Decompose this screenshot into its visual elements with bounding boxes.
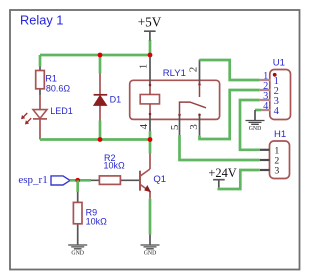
svg-text:3: 3 [188, 124, 200, 130]
R1 body [36, 71, 45, 89]
wire bottom bus LED1/D1/Q1 [40, 138, 150, 141]
RLY1 pin 4 lead [149, 114, 151, 131]
RLY1 coil connection lines [149, 85, 151, 114]
svg-text:3: 3 [274, 166, 279, 177]
power symbol +5V [138, 15, 162, 41]
U1 body box [270, 70, 291, 120]
svg-text:esp_r1: esp_r1 [18, 174, 47, 186]
D1 triangle [94, 96, 107, 106]
svg-text:10kΩ: 10kΩ [104, 160, 126, 170]
H1 pin 3 stub [260, 169, 270, 171]
D1 anode and cathode leads [99, 74, 101, 121]
RLY1 pin 4 terminal dot [149, 113, 152, 116]
svg-text:Relay 1: Relay 1 [20, 13, 63, 28]
LED LED1 [21, 95, 73, 139]
RLY1 pin 5 lead [179, 115, 181, 135]
svg-text:80.6Ω: 80.6Ω [46, 83, 71, 93]
wire Q1 emitter to ground [149, 199, 152, 235]
svg-text:R1: R1 [45, 74, 57, 84]
R1 pin leads [39, 67, 41, 96]
H1 pin 1 stub [260, 149, 270, 151]
svg-text:4: 4 [274, 106, 280, 117]
RLY1 pin 2 terminal dot [198, 83, 201, 86]
svg-text:D1: D1 [110, 94, 122, 104]
svg-text:1: 1 [138, 64, 150, 70]
wire junction to R9 [76, 180, 79, 192]
svg-text:U1: U1 [273, 58, 285, 69]
wire esp_r1 to R2 [70, 179, 91, 182]
GND bars [141, 245, 160, 249]
LED1 emission arrow shafts [23, 113, 31, 123]
GND stem [149, 235, 151, 245]
wire RLY1 pin5 to H1 pin2 [180, 135, 260, 160]
svg-text:10kΩ: 10kΩ [86, 216, 108, 226]
junction bus/+5V/RLY1 pin1 [148, 53, 153, 58]
net label esp_r1 [18, 174, 70, 186]
R2 body [99, 176, 120, 185]
U1 pin 3 stub [260, 99, 271, 101]
R9 body [73, 202, 82, 223]
wire RLY1 pin3 to U1 pin2 [200, 90, 260, 139]
resistor R9 [73, 192, 107, 229]
wire RLY1 pin4 to bottom bus [149, 131, 152, 140]
svg-text:Q1: Q1 [153, 174, 166, 185]
LED1 anode and cathode leads [39, 95, 41, 139]
U1 pin 2 stub [260, 89, 271, 91]
Q1 base bar [139, 171, 141, 191]
svg-text:4: 4 [138, 123, 150, 129]
wire U1 pin3 to H1 pin1 [240, 100, 260, 150]
resistor R2 [91, 153, 140, 184]
svg-text:GND: GND [249, 126, 262, 132]
wire D1 cathode to bottom bus [99, 121, 102, 140]
R9 pin leads [77, 192, 79, 229]
svg-text:GND: GND [144, 250, 157, 256]
RLY1 pin 3 terminal dot [198, 113, 201, 116]
esp_r1 flag outline [51, 176, 70, 185]
svg-text:5: 5 [169, 124, 181, 130]
resistor R1 [36, 67, 71, 96]
junction bus/D1 [98, 53, 103, 58]
+5V bar and pin [144, 31, 156, 40]
svg-text:H1: H1 [274, 129, 286, 140]
svg-text:+5V: +5V [138, 15, 162, 30]
svg-text:4: 4 [263, 101, 268, 112]
wire RLY1 pin2 to U1 pin1 [200, 60, 260, 80]
junction bottom bus/D1 [98, 137, 103, 142]
R2 pin leads [91, 179, 140, 181]
Q1 emitter arrow head [145, 186, 150, 191]
wire +24V to H1 pin3 [219, 170, 260, 189]
RLY1 body box [130, 80, 220, 119]
RLY1 pin 2 lead [199, 60, 201, 85]
GND stem [254, 110, 256, 120]
power symbol +24V [208, 166, 236, 188]
ground GND near U1 [246, 110, 265, 132]
LED1 triangle [33, 110, 47, 119]
connector H1 [260, 129, 290, 179]
svg-text:+24V: +24V [208, 166, 236, 180]
Q1 collector diagonal [140, 169, 150, 176]
wire bus to D1 anode [99, 55, 102, 74]
RLY1 switch blade [180, 102, 207, 115]
RLY1 pin 1 terminal dot [149, 84, 152, 87]
wire +5V bus (node +5V) [40, 54, 150, 57]
transistor Q1 [140, 154, 166, 199]
U1 pin 4 stub [261, 109, 271, 111]
wire bus to Q1 collector [149, 140, 152, 154]
relay RLY1 [130, 57, 220, 136]
H1 body box [270, 141, 290, 179]
ground GND under Q1 [141, 235, 160, 257]
Q1 emitter diagonal [140, 184, 149, 190]
svg-text:2: 2 [187, 67, 199, 73]
LED1 emission arrow head 2 [25, 120, 29, 124]
connector U1 [260, 58, 291, 120]
svg-text:RLY1: RLY1 [163, 68, 186, 79]
RLY1 pin 1 lead [149, 57, 151, 86]
wire U1 pin4 to ground [255, 109, 261, 112]
svg-text:LED1: LED1 [50, 106, 73, 116]
junction esp_r1/R2/R9 [75, 178, 80, 183]
wire +5V symbol stem [149, 40, 152, 55]
RLY1 coil [140, 95, 159, 104]
D1 cathode bar [94, 94, 108, 96]
Q1 collector and emitter leads [149, 154, 151, 199]
svg-text:GND: GND [71, 250, 84, 256]
junction bottom bus/RLY1 pin4/Q1 [148, 137, 153, 142]
RLY1 pin 5 terminal dot [178, 113, 181, 116]
GND bars [246, 121, 265, 125]
+24V bar and pin [213, 180, 225, 188]
ground GND under R9 [68, 229, 87, 257]
U1 pin1 marker dot [273, 73, 277, 77]
LED1 cathode bar [33, 118, 47, 120]
wire bus to R1 top [39, 55, 42, 67]
RLY1 pin 3 lead [199, 115, 201, 136]
RLY1 throw contact line [199, 85, 201, 98]
GND stem [77, 229, 79, 245]
H1 pin 2 stub [260, 159, 270, 161]
U1 pin 1 stub [260, 79, 271, 81]
diode D1 [94, 74, 122, 121]
GND bars [68, 245, 87, 249]
LED1 emission arrow head 1 [21, 115, 25, 119]
